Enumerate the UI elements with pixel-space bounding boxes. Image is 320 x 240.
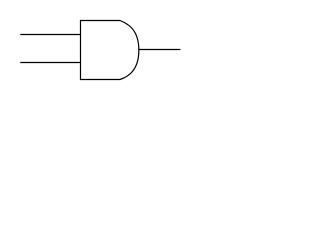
wire output [139, 49, 181, 51]
AND gate U1 [81, 21, 139, 80]
wire input B [20, 62, 81, 64]
wire input A [20, 34, 81, 36]
